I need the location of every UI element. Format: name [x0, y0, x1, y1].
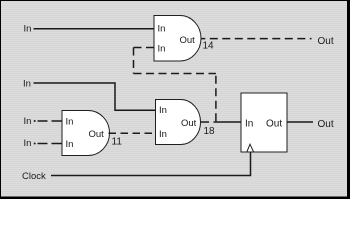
- svg-text:In: In: [23, 79, 31, 90]
- wire: Clock to flip-flop clock input: [51, 153, 251, 176]
- wire: flip-flop output to right Out: [287, 121, 313, 123]
- svg-text:In: In: [24, 24, 32, 35]
- wire: third In to AND gate 11 input 1 (dash-dot): [34, 120, 62, 122]
- wire: gate 14 output to top-right Out (dashed): [201, 38, 312, 40]
- svg-text:In: In: [66, 117, 74, 128]
- AND gate 11: [62, 111, 110, 156]
- AND gate 18: [156, 100, 201, 145]
- wire: top-left In to AND gate 14 input 1: [34, 28, 155, 30]
- svg-text:Out: Out: [89, 129, 105, 140]
- svg-text:In: In: [245, 119, 253, 130]
- wire: gate 18 output to flip-flop input: [214, 121, 242, 123]
- svg-text:Clock: Clock: [22, 171, 46, 182]
- wire: gate 11 output to gate 18 input 2 (dashed): [109, 132, 156, 134]
- svg-text:Out: Out: [318, 36, 334, 47]
- wire: second In to AND gate 18 input 1: [34, 83, 156, 110]
- svg-text:In: In: [159, 105, 167, 116]
- wire: feedback from gate 18 output net to gate 14 input 2 (dashed): [134, 47, 155, 49]
- svg-text:Out: Out: [180, 35, 196, 46]
- svg-text:18: 18: [204, 126, 216, 137]
- clock edge triangle on flip-flop: [247, 144, 254, 152]
- AND gate 14: [154, 16, 201, 62]
- svg-text:Out: Out: [181, 118, 197, 129]
- svg-text:Out: Out: [266, 119, 282, 130]
- svg-text:In: In: [158, 44, 166, 55]
- wire: gate 18 output stub (dash): [201, 121, 209, 123]
- svg-text:Out: Out: [318, 119, 334, 130]
- svg-text:In: In: [159, 129, 167, 140]
- wire: fourth In to AND gate 11 input 2 (dash-dot): [34, 143, 62, 145]
- svg-text:In: In: [24, 116, 32, 127]
- svg-text:In: In: [66, 139, 74, 150]
- svg-text:In: In: [24, 138, 32, 149]
- svg-text:14: 14: [203, 41, 215, 52]
- flip-flop U1: [241, 93, 287, 152]
- svg-text:11: 11: [112, 137, 123, 148]
- svg-text:In: In: [158, 23, 166, 34]
